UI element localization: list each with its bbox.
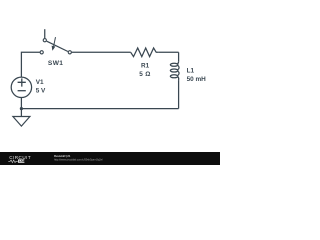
svg-text:5 V: 5 V [36, 88, 46, 95]
wire: resistor to top-right corner [158, 51, 178, 53]
wire: right vertical below inductor [178, 80, 180, 109]
V1 minus sign [18, 90, 26, 92]
svg-text:L1: L1 [187, 68, 195, 75]
switch SW1 top terminal circle [43, 39, 46, 42]
footer logo LAB box [18, 159, 24, 162]
switch SW1 arrowhead [52, 46, 56, 51]
voltage source V1 [11, 77, 31, 97]
svg-text:V1: V1 [36, 79, 44, 86]
resistor R1 [131, 48, 159, 57]
switch SW1 right terminal circle [68, 51, 71, 54]
svg-text:http://www.circuitlab.com/c/59: http://www.circuitlab.com/c/59sb5yam3q2e… [54, 157, 103, 161]
wire: bottom rail [21, 108, 178, 110]
svg-text:5 Ω: 5 Ω [139, 71, 150, 78]
footer logo resistor zigzag [8, 160, 17, 163]
inductor L1 [177, 61, 178, 64]
wire: V1 bottom to ground node [20, 97, 22, 116]
wire: left rail from switch to V1 [21, 52, 40, 77]
svg-text:R1: R1 [141, 63, 150, 70]
svg-text:SW1: SW1 [48, 60, 64, 67]
V1 plus sign [18, 78, 26, 86]
junction node at ground [20, 107, 23, 110]
wire: top rail from switch right terminal to resistor [72, 51, 131, 53]
switch SW1 left terminal circle [40, 51, 43, 54]
switch SW1 actuator arrow shaft [54, 37, 56, 46]
ground symbol [13, 117, 30, 127]
svg-text:50 mH: 50 mH [187, 76, 207, 83]
switch SW1 blade [47, 41, 68, 51]
wire: right vertical above inductor [178, 52, 180, 61]
svg-text:LAB: LAB [19, 159, 26, 163]
wire: switch top stub [44, 29, 46, 38]
footer bar [0, 152, 220, 165]
